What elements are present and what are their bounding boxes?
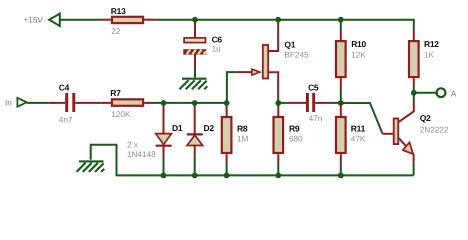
- wire R9 bottom: [277, 163, 279, 175]
- svg-text:+15V: +15V: [24, 15, 44, 24]
- R8 value 1M: [237, 135, 249, 144]
- wire top rail left: [60, 19, 101, 21]
- svg-text:120K: 120K: [111, 110, 131, 119]
- wire C4 to R7: [98, 102, 101, 104]
- input pin In: [17, 98, 26, 107]
- R12 value 1K: [424, 50, 435, 59]
- svg-text:Q1: Q1: [284, 40, 295, 50]
- wire D1 top: [163, 103, 165, 107]
- D1 name: [172, 123, 183, 133]
- Q2 value 2N2222: [420, 125, 449, 134]
- svg-text:D1: D1: [172, 123, 183, 133]
- R7 value 120K: [111, 110, 131, 119]
- wire mid rail: [155, 102, 227, 104]
- node junction R8 bottom: [224, 173, 230, 179]
- svg-text:R10: R10: [351, 39, 366, 49]
- node junction D2 bottom: [192, 173, 198, 179]
- svg-text:BF245: BF245: [284, 51, 309, 60]
- pin R11 top: [340, 103, 342, 116]
- capacitor C6: [183, 38, 206, 55]
- pin R13 right: [144, 19, 154, 21]
- C6 name: [212, 35, 223, 45]
- R11 value 47K: [351, 135, 366, 144]
- R10 name: [351, 39, 366, 49]
- wire In to C4: [27, 102, 49, 104]
- wire D1 bottom: [163, 156, 165, 176]
- diodes value 2x 1N4148: [127, 141, 156, 159]
- C4 name: [59, 82, 70, 92]
- wire Q1 source: [277, 96, 279, 103]
- resistor R13: [112, 17, 143, 23]
- pin R10 top: [340, 30, 342, 40]
- R13 name: [111, 6, 126, 16]
- Q1 name: [284, 40, 295, 50]
- svg-text:12K: 12K: [351, 50, 366, 59]
- svg-text:R9: R9: [289, 124, 300, 134]
- node junction D1 bottom: [161, 173, 167, 179]
- pin C5 right: [315, 102, 331, 104]
- wire C6 to ground: [194, 55, 196, 78]
- pin R7 right: [144, 102, 154, 104]
- ground GND2: [77, 161, 105, 172]
- svg-text:R11: R11: [351, 124, 366, 134]
- svg-text:R12: R12: [424, 39, 439, 49]
- C4 value 4n7: [59, 116, 73, 125]
- node junction base: [338, 100, 344, 106]
- pin R10 bottom: [340, 78, 342, 89]
- node junction R10 top: [338, 17, 344, 23]
- resistor R9: [274, 117, 284, 153]
- wire Q2 base: [341, 103, 383, 134]
- svg-text:A: A: [451, 89, 457, 98]
- R12 name: [424, 39, 439, 49]
- pin R9 top: [277, 108, 279, 116]
- pin R8 top: [226, 108, 228, 116]
- output pin A: [437, 88, 446, 97]
- ground GND1: [180, 79, 208, 90]
- svg-text:D2: D2: [204, 123, 215, 133]
- +15V label: [24, 15, 44, 24]
- svg-text:4n7: 4n7: [59, 116, 73, 125]
- resistor R12: [409, 41, 419, 77]
- svg-text:2 x: 2 x: [127, 141, 138, 150]
- supply +15V arrow: [49, 14, 60, 26]
- resistor R11: [336, 117, 346, 153]
- svg-text:1N4148: 1N4148: [127, 150, 156, 159]
- D2 name: [204, 123, 215, 133]
- node junction C6 top: [192, 17, 198, 23]
- wire Q1 gate: [227, 72, 236, 102]
- wire R8 bottom: [226, 163, 228, 175]
- node junction R11 bottom: [338, 173, 344, 179]
- svg-text:C4: C4: [59, 82, 70, 92]
- node junction R9 bottom: [275, 173, 281, 179]
- node junction A: [411, 90, 417, 96]
- capacitor C5: [306, 93, 315, 112]
- svg-text:680: 680: [289, 135, 303, 144]
- svg-text:1u: 1u: [212, 45, 222, 54]
- wire R12 to node: [413, 87, 415, 96]
- diode D1: [156, 107, 172, 156]
- pin R12 top: [413, 30, 415, 40]
- diode D2: [187, 107, 203, 156]
- svg-text:47K: 47K: [351, 135, 366, 144]
- node junction R9 C5: [275, 100, 281, 106]
- svg-text:C6: C6: [212, 35, 223, 45]
- pin R13 left: [101, 19, 111, 21]
- pin C5 left: [289, 102, 307, 104]
- svg-text:22: 22: [111, 27, 121, 36]
- svg-text:1M: 1M: [237, 135, 249, 144]
- node junction D2 top: [192, 100, 198, 106]
- svg-text:2N2222: 2N2222: [420, 125, 449, 134]
- svg-text:R13: R13: [111, 6, 126, 16]
- svg-text:Q2: Q2: [420, 113, 431, 123]
- wire R8 top: [226, 103, 228, 108]
- wire Q2 emitter: [413, 163, 415, 176]
- pin R9 bottom: [277, 154, 279, 163]
- svg-text:R8: R8: [237, 124, 248, 134]
- transistor Q1 body: [236, 23, 278, 96]
- R11 name: [351, 124, 366, 134]
- svg-text:47n: 47n: [309, 114, 323, 123]
- wire D2 top: [194, 103, 196, 107]
- capacitor C4: [65, 93, 75, 112]
- R10 value 12K: [351, 50, 366, 59]
- wire C6 stem: [194, 21, 196, 37]
- resistor R7: [112, 99, 143, 106]
- A label: [451, 89, 457, 98]
- wire D2 bottom: [194, 156, 196, 176]
- transistor Q2: [382, 101, 413, 163]
- wire C5 left: [278, 102, 288, 104]
- C5 name: [308, 82, 319, 92]
- svg-text:C5: C5: [308, 82, 319, 92]
- R9 value 680: [289, 135, 303, 144]
- node junction gate R8: [224, 100, 230, 106]
- Q1 value BF245: [284, 51, 309, 60]
- node junction D1 top: [161, 100, 167, 106]
- R8 name: [237, 124, 248, 134]
- C5 value 47n: [309, 114, 323, 123]
- node junction Q1 drain: [275, 17, 281, 23]
- pin R8 bottom: [226, 154, 228, 163]
- wire R10 bottom: [340, 89, 342, 103]
- resistor R8: [222, 117, 232, 153]
- R13 value 22: [111, 27, 121, 36]
- wire top rail right: [155, 20, 414, 30]
- svg-text:1K: 1K: [424, 50, 435, 59]
- R9 name: [289, 124, 300, 134]
- pin C4 right: [75, 102, 97, 104]
- In label: [5, 98, 12, 107]
- wire R11 bottom: [340, 163, 342, 175]
- C6 value 1u: [212, 45, 222, 54]
- wire R10 top: [340, 21, 342, 30]
- svg-text:In: In: [5, 98, 12, 107]
- Q2 name: [420, 113, 431, 123]
- wire Q2 collector: [413, 93, 415, 101]
- resistor R10: [336, 41, 346, 77]
- wire Q1 drain: [277, 21, 279, 23]
- wire R9 top: [277, 103, 279, 108]
- pin R7 left: [101, 102, 111, 104]
- svg-text:R7: R7: [110, 88, 121, 98]
- R7 name: [110, 88, 121, 98]
- pin R12 bottom: [413, 78, 415, 86]
- wire to output A: [414, 92, 437, 94]
- wire bottom rail: [91, 145, 414, 176]
- pin R11 bottom: [340, 154, 342, 163]
- pin C4 left: [49, 102, 65, 104]
- wire C5 to R11: [332, 102, 341, 104]
